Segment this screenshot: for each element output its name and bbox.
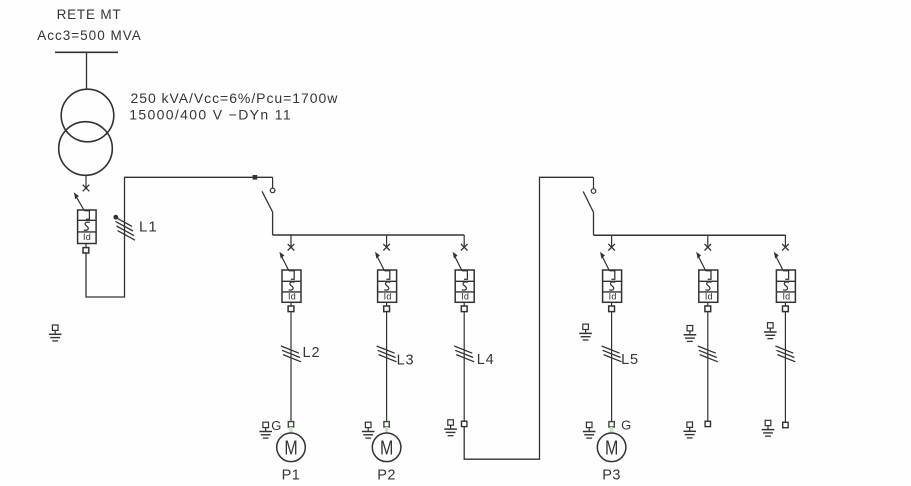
drawout contact marker [782,244,789,251]
terminal square L4 [462,421,467,426]
svg-text:M: M [284,435,297,458]
wire to motor [385,427,388,433]
transformer T1 [59,89,114,175]
ground L4 [444,420,457,436]
svg-text:L5: L5 [621,352,639,368]
wire breaker down [707,312,709,422]
wire breaker down [386,312,388,422]
wire S2 to right busbar [593,212,595,235]
svg-text:G: G [271,418,281,433]
svg-text:Id: Id [609,292,617,302]
circuit breaker Q1 [74,192,96,253]
motor ground [259,422,272,438]
svg-text:250 kVA/Vcc=6%/Pcu=1700w: 250 kVA/Vcc=6%/Pcu=1700w [131,90,339,106]
svg-text:P2: P2 [377,468,396,484]
wire S1 to left busbar [272,212,274,235]
motor ground [583,422,596,438]
motor P1 [277,433,306,462]
wire busbar to breaker [463,235,465,246]
upper ground L6 [684,326,697,342]
disconnector S2 [583,177,596,212]
terminal square L7 [783,422,788,427]
svg-text:Id: Id [288,292,296,302]
svg-text:L4: L4 [477,352,495,368]
wire busbar to breaker [784,235,786,246]
svg-text:L3: L3 [397,353,415,369]
cable [377,346,397,362]
disconnector S1 [262,177,275,212]
transformer value label [129,90,338,123]
ground main switchboard [49,325,62,341]
svg-text:Id: Id [705,292,713,302]
wire busbar to breaker [707,235,709,246]
wire transformer to breaker Q1 [85,175,87,187]
drawout contact marker [288,244,295,251]
drawout contact marker [608,244,615,251]
cable [454,346,474,362]
upper ground P3 [579,324,592,340]
terminal square L6 [705,421,710,426]
wire busbar to breaker [290,235,292,246]
motor ground [362,422,375,438]
MT source busbar [55,51,118,53]
lower ground L6 [683,422,696,438]
wire breaker down [611,312,613,422]
svg-text:G: G [621,418,631,433]
circuit breaker [696,252,718,312]
svg-text:M: M [380,435,393,458]
cable [281,346,301,362]
drawout contact marker [83,185,90,192]
motor terminal square [288,422,293,427]
svg-text:P1: P1 [282,468,301,484]
left busbar [273,234,465,236]
circuit breaker [453,252,475,312]
svg-text:L1: L1 [139,219,158,236]
circuit breaker [279,252,301,312]
svg-text:15000/400 V −DYn 11: 15000/400 V −DYn 11 [129,107,292,123]
wire breaker down [463,312,465,422]
svg-text:L2: L2 [303,345,321,361]
wire L4 to right feeder [464,177,593,459]
wire breaker down [784,312,786,423]
upper ground L7 [764,323,777,339]
cable [775,346,795,362]
wire breaker Q1 to junction node [86,177,273,297]
cable [698,346,718,362]
wire breaker down [290,312,292,422]
drawout contact marker [705,244,712,251]
circuit breaker [600,252,622,312]
svg-text:P3: P3 [602,468,621,484]
cable L1 [114,215,135,240]
wire to motor [289,427,292,433]
svg-text:Acc3=500 MVA: Acc3=500 MVA [37,28,141,43]
svg-text:Id: Id [782,292,790,302]
svg-text:Id: Id [384,292,392,302]
wire busbar to breaker [611,235,613,246]
motor terminal square [384,422,389,427]
motor P3 [597,433,626,462]
motor P2 [372,433,401,462]
svg-text:Id: Id [461,292,469,302]
circuit breaker [375,252,397,312]
lower ground L7 [762,420,775,436]
circuit breaker [774,252,796,312]
cable [602,346,622,362]
svg-text:Id: Id [83,232,91,242]
node junction [253,175,258,180]
wire busbar to breaker [386,235,388,246]
wire to motor [610,427,613,433]
wire source to transformer [86,52,88,89]
right busbar [594,234,786,236]
drawout contact marker [383,244,390,251]
motor terminal square [609,422,614,427]
svg-text:M: M [605,435,618,458]
drawout contact marker [461,244,468,251]
svg-text:RETE MT: RETE MT [57,7,122,22]
